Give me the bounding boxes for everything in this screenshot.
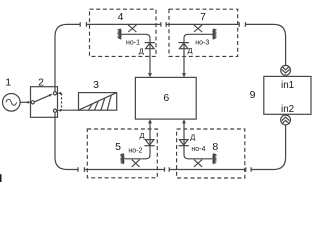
- svg-text:Д: Д: [190, 133, 195, 142]
- contact X (box 4): [128, 25, 136, 32]
- wire spring to diode (box 7): [184, 34, 213, 38]
- bottom bus wire to inlet in2 (right riser): [251, 125, 286, 170]
- svg-text:6: 6: [163, 92, 169, 104]
- wire diode to unit 6 with arrow (box 7): [182, 38, 186, 77]
- coupling (top-left): [80, 22, 86, 27]
- spring stop (box 5): [121, 154, 123, 165]
- load unit 9: [264, 76, 311, 114]
- dashed enclosure box 8: [177, 129, 245, 178]
- ramp unit 3: [79, 93, 117, 111]
- contact X (box 5): [132, 160, 140, 167]
- spring stop (box 4): [119, 29, 121, 40]
- svg-text:3: 3: [93, 79, 99, 91]
- junction dot: [27, 101, 29, 103]
- contact X (box 8): [194, 160, 202, 167]
- wire diode to unit 6 with arrow (box 5): [148, 119, 152, 155]
- switch upper contact: [53, 92, 56, 95]
- bottom bus wire (through box 5): [84, 169, 164, 171]
- wire linkage to ramp unit 3: [62, 109, 79, 111]
- svg-text:1: 1: [5, 77, 11, 89]
- svg-text:но-1: но-1: [126, 39, 140, 46]
- top bus wire (through box 4): [86, 23, 160, 25]
- wire switch lower throw to bottom bus (left riser): [55, 112, 78, 169]
- wire source to switch box 2: [20, 101, 30, 103]
- wire spring to diode (box 5): [123, 155, 150, 159]
- diode Д (box 5): [144, 140, 154, 146]
- coupling (bottom-right): [246, 167, 251, 172]
- bottom bus wire (through box 8): [169, 169, 246, 171]
- spring stop (box 8): [213, 154, 215, 165]
- actuator linkage (dashed): [58, 92, 62, 112]
- dashed enclosure box 5: [87, 129, 157, 178]
- svg-text:7: 7: [200, 11, 206, 23]
- switch common contact: [31, 101, 34, 104]
- wire diode to unit 6 with arrow (box 4): [148, 38, 152, 77]
- svg-text:4: 4: [118, 11, 124, 23]
- svg-text:но-3: но-3: [195, 39, 209, 46]
- edge artifact (left margin): [0, 174, 2, 182]
- dashed enclosure box 7: [169, 9, 238, 56]
- spring stop (box 7): [213, 29, 215, 40]
- wire diode to unit 6 with arrow (box 8): [182, 119, 186, 155]
- svg-text:in1: in1: [281, 80, 294, 91]
- svg-text:но-4: но-4: [191, 146, 205, 153]
- svg-text:in2: in2: [281, 104, 294, 115]
- diode Д (box 8): [179, 140, 189, 146]
- switch arm: [35, 94, 53, 102]
- inlet symbol in2 (circle with chevrons): [281, 115, 291, 125]
- coupling (top-middle): [161, 22, 166, 27]
- wire switch upper throw to top bus (left riser): [55, 24, 80, 91]
- coupling (bottom-left): [78, 167, 84, 172]
- wire spring to diode (box 8): [184, 155, 213, 159]
- control unit 6: [135, 77, 196, 119]
- inlet symbol in1 (circle with chevrons): [281, 65, 291, 75]
- coupling (top-right): [239, 22, 245, 27]
- wire spring to diode (box 4): [121, 34, 150, 38]
- svg-text:Д: Д: [139, 131, 144, 140]
- diode Д (box 7): [179, 43, 189, 49]
- svg-text:8: 8: [212, 141, 218, 153]
- dashed enclosure box 4: [90, 9, 157, 56]
- AC source G1: [3, 94, 21, 112]
- svg-text:но-2: но-2: [128, 147, 142, 154]
- svg-text:9: 9: [250, 89, 256, 101]
- svg-text:2: 2: [38, 77, 44, 89]
- contact X (box 7): [194, 25, 202, 32]
- switch box 2: [31, 87, 58, 118]
- svg-text:Д: Д: [139, 46, 144, 55]
- top bus wire to inlet in1 (right riser): [245, 24, 285, 65]
- svg-text:Д: Д: [187, 46, 192, 55]
- diode Д (box 4): [145, 43, 155, 49]
- coupling (bottom-middle): [165, 167, 170, 172]
- svg-text:5: 5: [115, 141, 121, 153]
- top bus wire (through box 7): [166, 23, 239, 25]
- switch lower contact: [53, 109, 56, 112]
